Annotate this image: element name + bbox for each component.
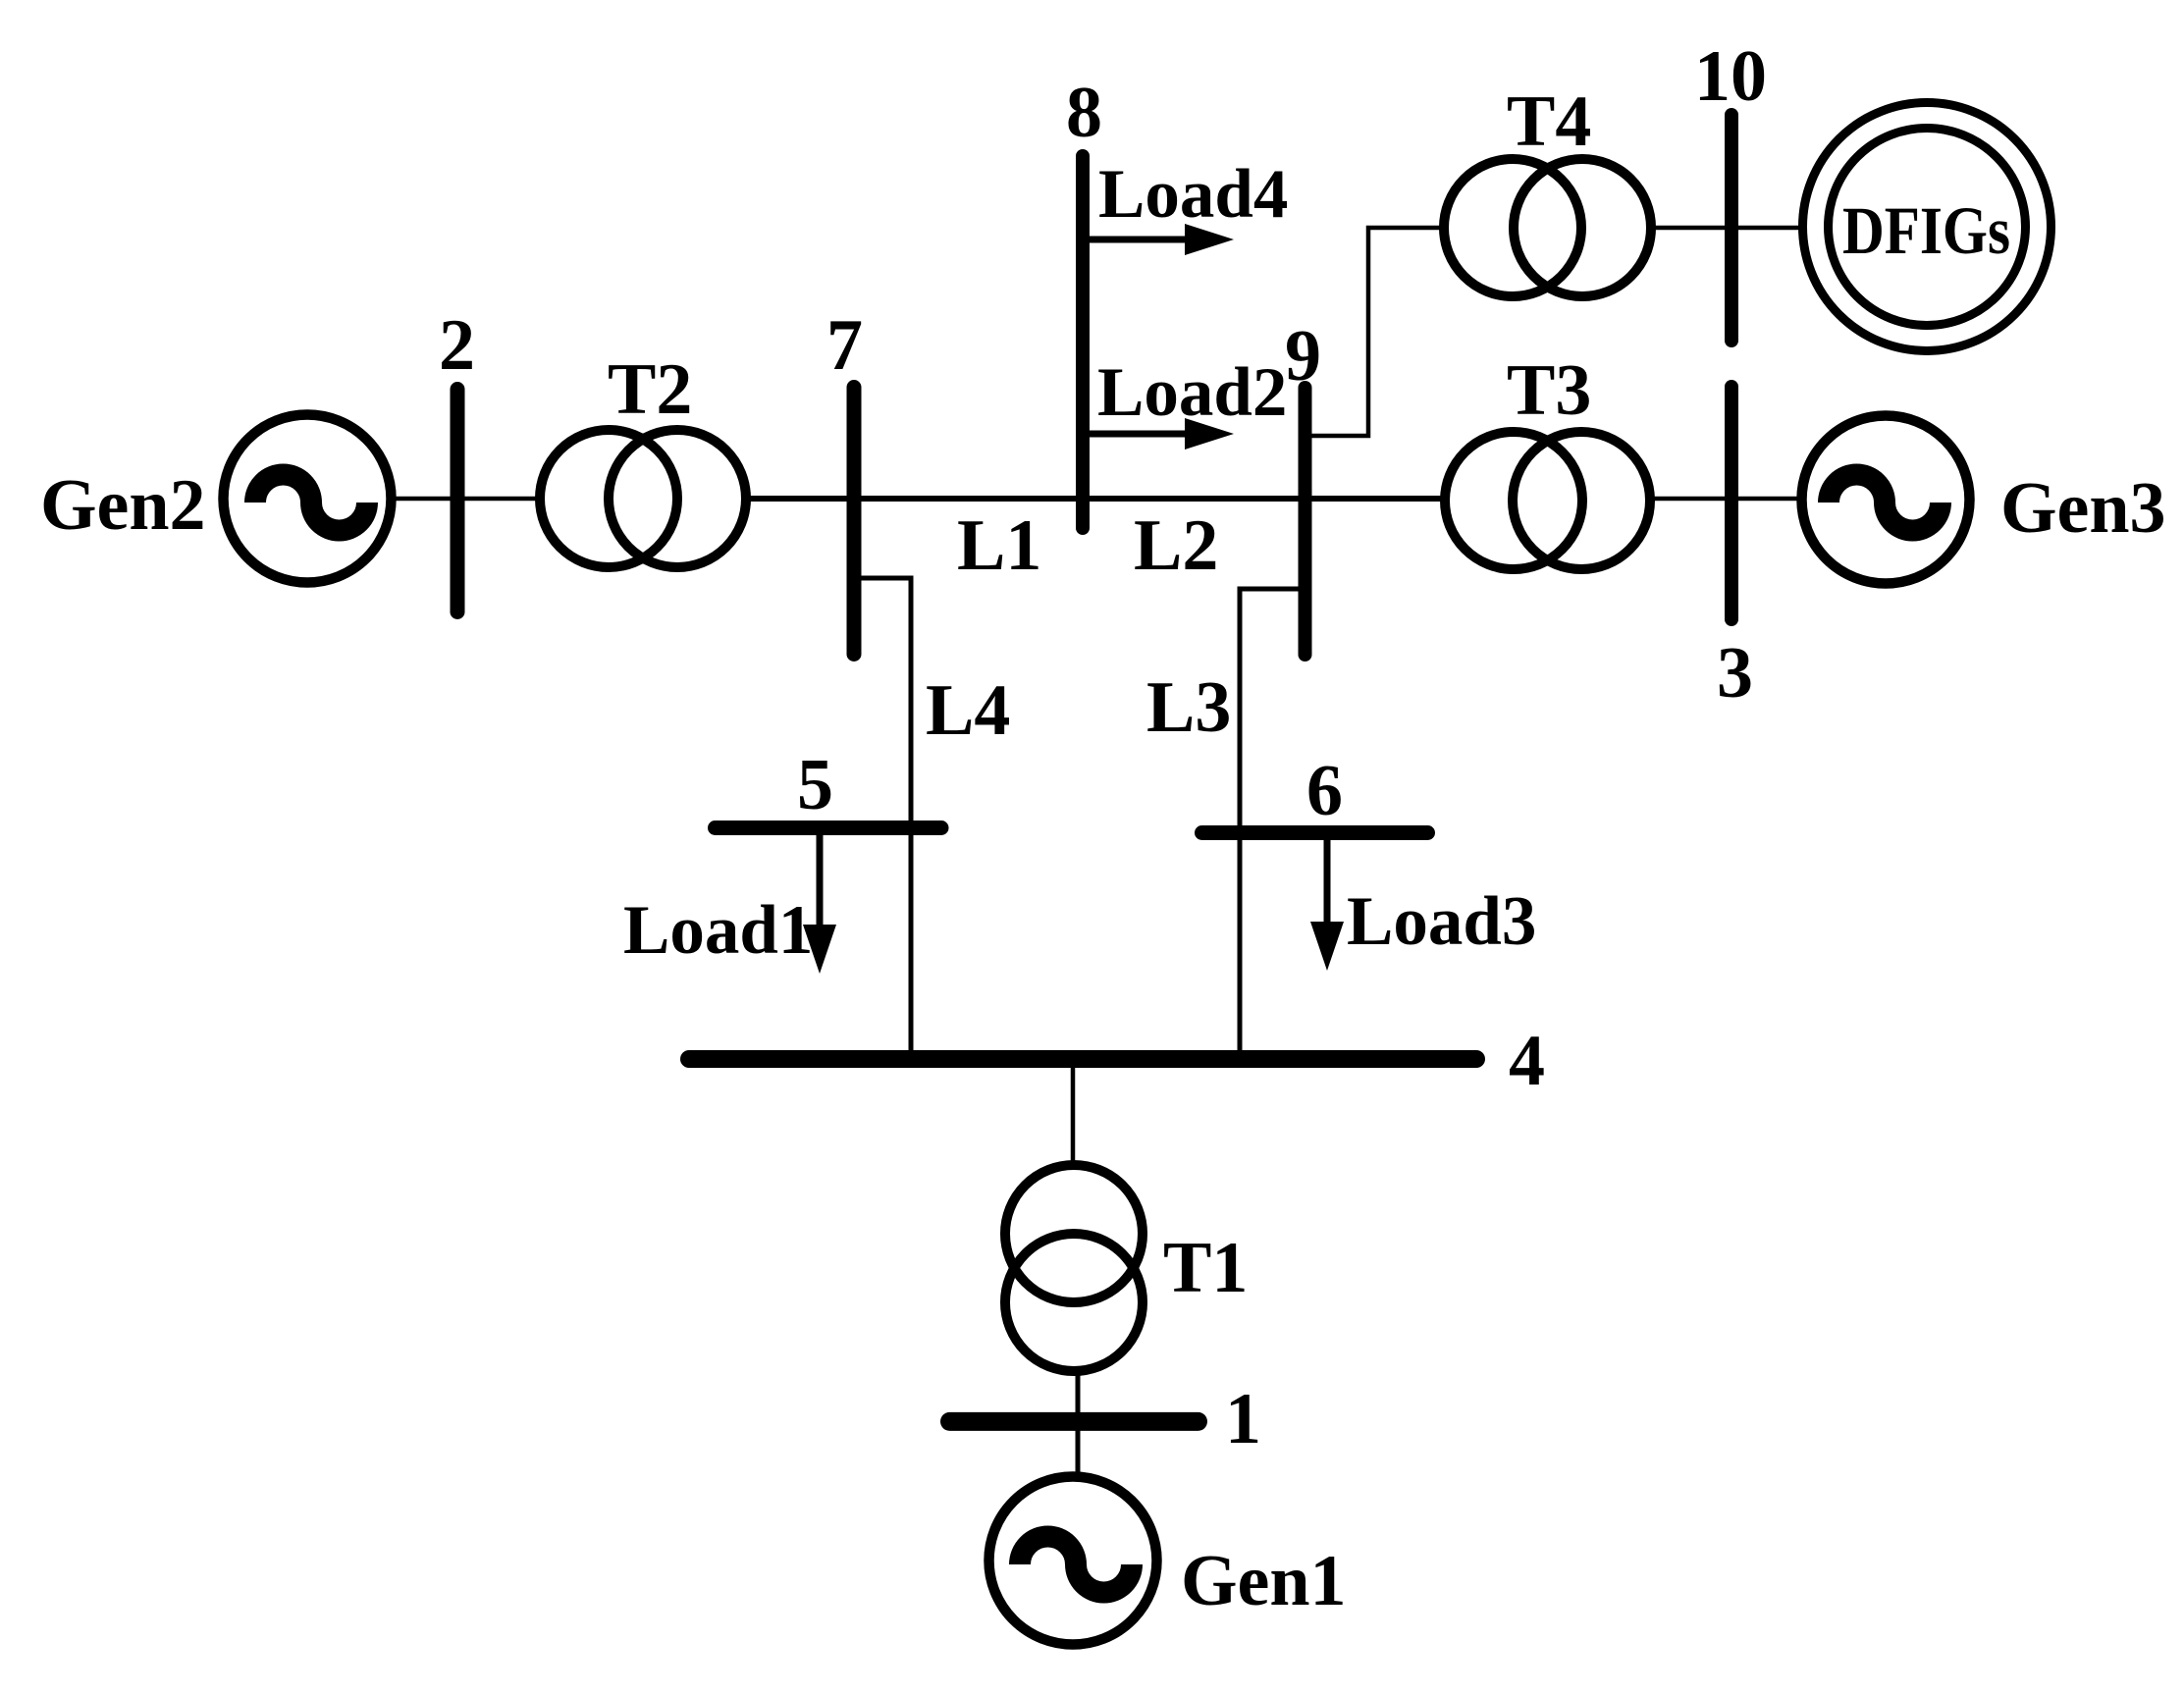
load Load1 arrow bbox=[803, 829, 836, 974]
bus 3 bbox=[1725, 387, 1738, 619]
svg-text:9: 9 bbox=[1285, 316, 1321, 397]
svg-text:7: 7 bbox=[826, 305, 863, 386]
transformer T2 bbox=[540, 430, 746, 567]
svg-text:Gen3: Gen3 bbox=[2000, 468, 2166, 549]
svg-text:Gen1: Gen1 bbox=[1181, 1541, 1347, 1621]
wire bus4 to T1 bbox=[1071, 1059, 1076, 1168]
wire T1 to bus1 bbox=[1076, 1373, 1081, 1421]
transformer T1 bbox=[1005, 1165, 1143, 1371]
svg-text:L4: L4 bbox=[926, 670, 1010, 751]
svg-text:2: 2 bbox=[439, 305, 475, 386]
svg-text:Load3: Load3 bbox=[1347, 883, 1536, 960]
svg-text:3: 3 bbox=[1717, 633, 1753, 714]
wire riser bus9 to T4 bbox=[1305, 228, 1440, 436]
svg-text:T4: T4 bbox=[1507, 81, 1591, 162]
svg-text:10: 10 bbox=[1694, 36, 1767, 117]
load Load2 arrow bbox=[1083, 418, 1234, 450]
wire main horizontal bus row Gen2 to Gen3 bbox=[390, 497, 539, 502]
bus 8 bbox=[1076, 156, 1090, 528]
bus 9 bbox=[1299, 388, 1312, 655]
generator DFIGs double circle bbox=[1803, 103, 2051, 351]
bus 1 bbox=[950, 1412, 1199, 1431]
generator Gen3 bbox=[1802, 416, 1970, 584]
wire L4 bus7 down to bus4 bbox=[854, 578, 911, 1059]
wire L3 bus9 down to bus4 bbox=[1240, 589, 1305, 1059]
bus 10 bbox=[1725, 115, 1738, 341]
wire T2 to bus7 to bus8 to bus9 to T3 bbox=[747, 496, 1442, 502]
svg-text:T1: T1 bbox=[1163, 1228, 1248, 1308]
wire T4 to bus10 to DFIGs bbox=[1655, 226, 1801, 231]
transformer T3 bbox=[1445, 432, 1650, 569]
bus 2 bbox=[451, 390, 465, 612]
svg-text:4: 4 bbox=[1509, 1021, 1545, 1101]
svg-text:Gen2: Gen2 bbox=[40, 465, 206, 546]
svg-text:T2: T2 bbox=[608, 349, 692, 430]
bus 6 bbox=[1202, 825, 1428, 840]
svg-text:Load4: Load4 bbox=[1098, 156, 1288, 233]
svg-text:Load2: Load2 bbox=[1097, 354, 1287, 431]
svg-text:6: 6 bbox=[1306, 751, 1343, 831]
bus 7 bbox=[847, 388, 862, 655]
svg-text:1: 1 bbox=[1225, 1379, 1261, 1459]
svg-text:L2: L2 bbox=[1134, 505, 1218, 586]
svg-text:L1: L1 bbox=[957, 505, 1041, 586]
transformer T4 bbox=[1444, 159, 1651, 296]
bus 5 bbox=[716, 821, 942, 835]
svg-text:8: 8 bbox=[1066, 73, 1102, 153]
load Load4 arrow bbox=[1083, 224, 1234, 255]
svg-text:L3: L3 bbox=[1146, 667, 1231, 748]
svg-text:T3: T3 bbox=[1507, 350, 1591, 431]
load Load3 arrow bbox=[1310, 832, 1344, 971]
generator Gen1 bbox=[989, 1477, 1157, 1645]
svg-text:DFIGs: DFIGs bbox=[1842, 193, 2010, 268]
generator Gen2 bbox=[224, 415, 392, 583]
wire bus1 to Gen1 bbox=[1076, 1421, 1081, 1478]
svg-text:5: 5 bbox=[797, 745, 833, 825]
bus 4 bbox=[689, 1050, 1476, 1068]
svg-text:Load1: Load1 bbox=[623, 892, 813, 969]
wire T3 to bus3 to Gen3 bbox=[1653, 497, 1798, 502]
